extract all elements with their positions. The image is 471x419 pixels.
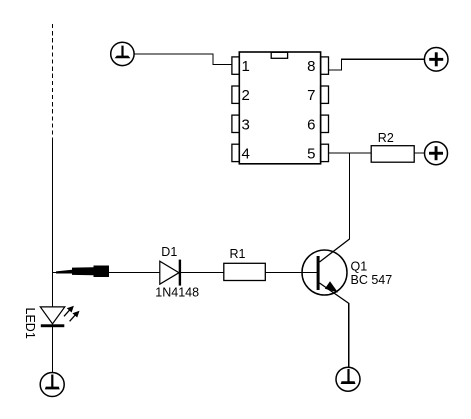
svg-text:6: 6 xyxy=(307,116,315,133)
IC pin 8 xyxy=(321,57,329,74)
svg-text:8: 8 xyxy=(307,58,315,75)
svg-text:D1: D1 xyxy=(161,245,177,259)
svg-text:R1: R1 xyxy=(230,247,246,261)
svg-text:LED1: LED1 xyxy=(23,308,37,339)
IC pin 2 xyxy=(232,86,239,103)
resistor R2 xyxy=(371,146,414,163)
LED1 light arrow 1 xyxy=(64,306,74,317)
IC pin 5 xyxy=(321,144,329,161)
LED1 triangle xyxy=(40,307,65,324)
svg-text:3: 3 xyxy=(242,116,250,133)
wire D1 to R1 xyxy=(181,272,224,274)
svg-text:4: 4 xyxy=(242,146,250,163)
LED1 light arrow 2 xyxy=(70,311,80,322)
wire pin8 to plus terminal xyxy=(329,59,425,70)
svg-text:5: 5 xyxy=(307,146,315,163)
svg-text:1N4148: 1N4148 xyxy=(155,285,199,299)
transistor Q1 circle xyxy=(302,250,347,295)
ground bottom-left xyxy=(40,373,64,397)
ground bottom-right xyxy=(336,367,360,391)
wire pin5 to R2 xyxy=(329,152,372,154)
svg-text:7: 7 xyxy=(307,87,315,104)
IC notch xyxy=(271,52,287,58)
probe arrow xyxy=(56,266,109,278)
wire ground to pin1 xyxy=(134,54,232,65)
svg-text:2: 2 xyxy=(242,87,250,104)
svg-text:BC 547: BC 547 xyxy=(351,273,393,287)
wire R1 to Q1 base xyxy=(265,272,317,274)
Q1 emitter arrow xyxy=(325,281,338,292)
plus terminal right xyxy=(425,142,448,165)
IC pin 3 xyxy=(232,115,239,132)
plus terminal top xyxy=(424,48,448,72)
IC pin 4 xyxy=(232,144,239,161)
LED1 cathode bar xyxy=(41,324,65,327)
IC U1 body xyxy=(239,52,320,164)
wire antenna vertical solid xyxy=(52,142,54,307)
wire junction to diode xyxy=(52,272,160,274)
wire LED to ground xyxy=(52,327,54,373)
wire R2 to plus terminal xyxy=(414,152,424,154)
IC pin 6 xyxy=(321,115,329,132)
Q1 base bar xyxy=(317,256,320,290)
ground top-left xyxy=(111,42,134,65)
svg-text:Q1: Q1 xyxy=(351,260,368,274)
Q1 emitter diagonal xyxy=(320,283,350,304)
resistor R1 xyxy=(224,263,265,280)
wire emitter vertical xyxy=(348,303,350,368)
diode D1 xyxy=(160,260,181,286)
IC pin 7 xyxy=(321,86,329,103)
antenna dashed wire xyxy=(52,24,54,142)
IC pin 1 xyxy=(232,57,239,74)
svg-text:1: 1 xyxy=(242,58,250,75)
wire collector vertical xyxy=(349,153,351,240)
Q1 collector diagonal xyxy=(320,239,350,262)
svg-text:R2: R2 xyxy=(378,131,394,145)
